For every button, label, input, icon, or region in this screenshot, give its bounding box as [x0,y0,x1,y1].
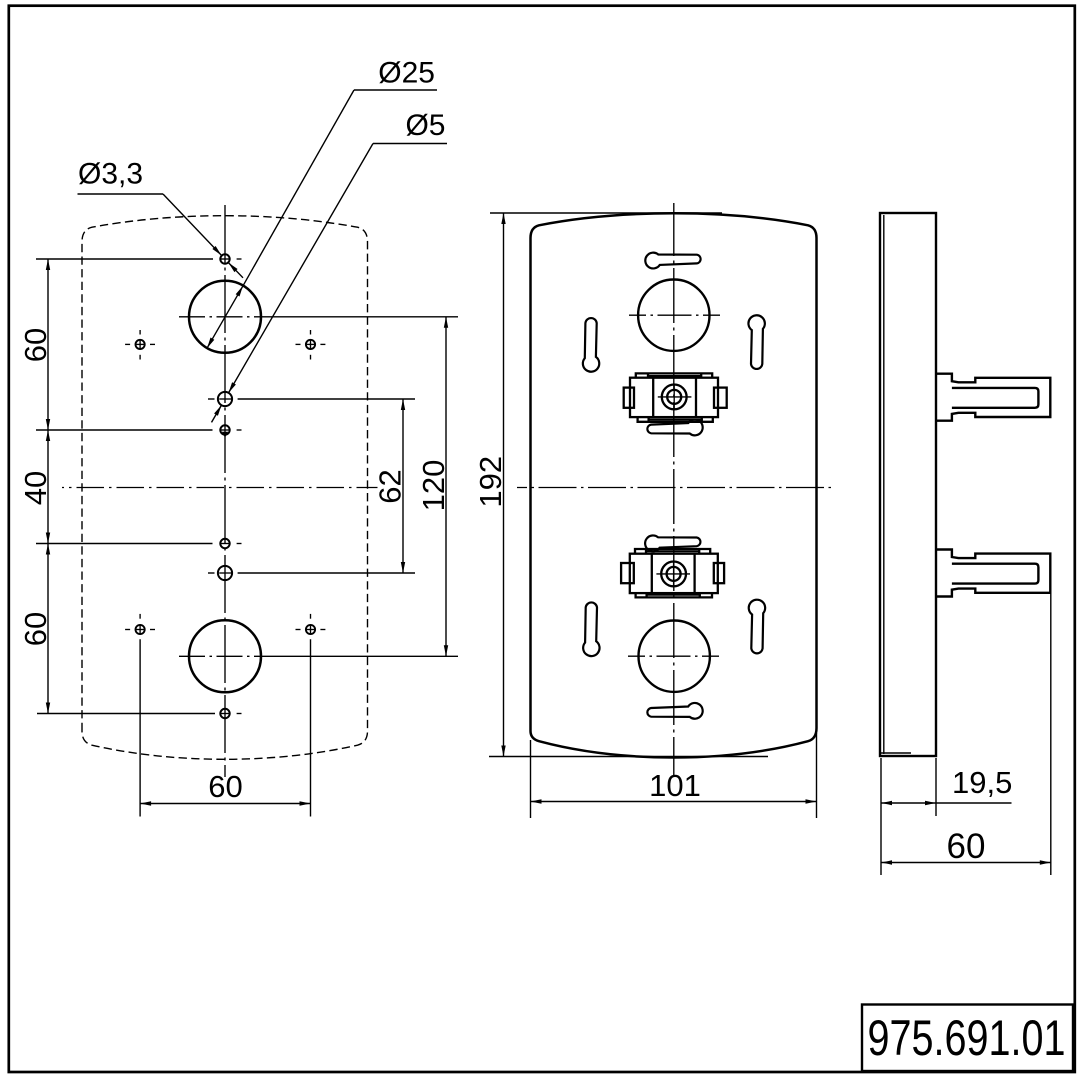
big hole bottom (25) [189,620,261,692]
horizontal centerline [517,487,831,489]
dimension line 120 [445,317,447,657]
19,5 dimension [935,758,937,816]
hole TL small (3.3) [220,254,229,263]
extension line y=430 [36,429,213,431]
svg-text:101: 101 [649,768,701,803]
hole 3.3 below [220,425,229,434]
hole bottom small [220,709,229,718]
svg-text:60: 60 [18,328,53,362]
60 depth dimension [1050,594,1052,875]
svg-text:Ø5: Ø5 [405,109,445,142]
svg-text:Ø3,3: Ø3,3 [78,158,143,191]
extension line y=259 [36,258,213,260]
svg-text:120: 120 [416,460,451,512]
svg-text:19,5: 19,5 [952,765,1012,800]
svg-text:192: 192 [473,456,508,508]
clip bottom [936,550,1050,597]
center mark + extension for 120 top [179,316,260,318]
hole 5 bottom [218,566,232,580]
side hole bottom-left [125,614,155,635]
vertical centerline [224,205,226,777]
extension line y=713.5 [37,713,215,715]
svg-text:40: 40 [18,471,53,505]
horizontal centerline [62,487,378,489]
dimension line 60/40/60 column [47,259,49,714]
svg-text:975.691.01: 975.691.01 [868,1010,1066,1066]
side hole bottom-right [296,614,326,635]
clamp bottom [621,535,724,597]
plate outline [531,213,817,757]
bottom 60 dimension [139,639,141,816]
svg-text:60: 60 [947,827,986,866]
bottom half features (rotated copy) [583,600,765,719]
side hole top-left [125,330,155,360]
hole 3.3 mid-bottom [220,539,229,548]
192 dimension [490,212,722,214]
extension line for 62 top [208,398,215,400]
hole 5 top [218,392,232,406]
plate side bottom edge line [881,752,911,754]
plate side outline [880,213,936,756]
plate side inner edge line [883,215,885,754]
svg-text:Ø25: Ø25 [378,56,435,89]
pointer tick below hole 3.3 [222,432,228,438]
clip top [936,374,1050,421]
plate outline dashed [82,216,368,760]
dimension line 62 [402,399,404,573]
101 dimension [530,740,532,818]
svg-text:62: 62 [373,469,408,503]
extension line y=543.5 [36,543,213,545]
svg-text:60: 60 [208,769,242,804]
big hole top (25) [189,281,261,353]
extension line for 62 bottom [208,572,215,574]
clamp top [624,373,727,435]
side hole top-right [296,330,326,360]
center mark + extension for 120 bottom [179,655,260,657]
top half features [583,253,765,372]
vertical centerline [673,203,675,776]
svg-text:60: 60 [18,612,53,646]
